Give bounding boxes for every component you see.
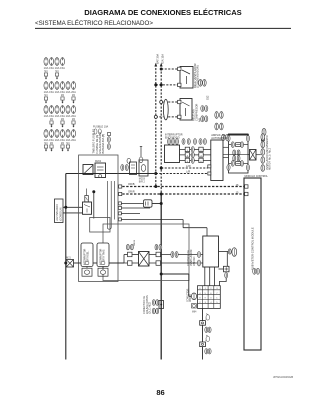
GS1 hook connector [206, 314, 207, 320]
junction box J1 [65, 262, 67, 264]
relay box K2 [180, 99, 192, 121]
chain sq1 [128, 252, 133, 257]
svg-text:86: 86 [156, 388, 164, 397]
svg-text:SUB METER CONTROL MODULE: SUB METER CONTROL MODULE [250, 227, 254, 270]
svg-text:UNION: UNION [190, 294, 192, 302]
fuse row2 F6 [71, 82, 75, 90]
svg-text:L/W: L/W [186, 164, 191, 168]
svg-text:MODULO CONTROL: MODULO CONTROL [245, 175, 269, 178]
connector column E41 [261, 134, 265, 141]
chain pills above sq1 [127, 245, 130, 250]
svg-text:10A: 10A [55, 66, 60, 70]
pin A1-2 [208, 172, 211, 175]
svg-text:15A: 15A [49, 114, 54, 118]
wire lb1-k3 b [63, 212, 83, 214]
loop connector b [246, 135, 249, 141]
cluster ovals [152, 300, 155, 306]
svg-text:GR/R: GR/R [128, 190, 135, 194]
connector M30 [262, 128, 266, 135]
svg-text:16: 16 [236, 183, 239, 187]
wire p2 [118, 207, 150, 209]
T1 pill below [225, 273, 228, 279]
svg-text:15A: 15A [60, 138, 65, 142]
svg-text:B/R 2: B/R 2 [139, 180, 146, 183]
loop connector c [227, 165, 230, 171]
fuse row3 F6 [71, 106, 75, 114]
svg-text:15A: 15A [49, 66, 54, 70]
inline component CA [130, 162, 137, 175]
svg-text:UNIDAD: UNIDAD [193, 256, 196, 266]
wire ign-2 [180, 154, 211, 156]
wire w6 (dashed) [156, 173, 208, 175]
table connector below-left [192, 304, 197, 308]
connector pair mid [121, 165, 124, 171]
connector E62 [215, 123, 219, 130]
chain row2 wire [109, 262, 139, 264]
svg-text:10A: 10A [44, 66, 49, 70]
connector E60 [215, 112, 219, 119]
connector E54 [201, 116, 204, 122]
svg-text:M4: M4 [72, 119, 76, 121]
wire bus-b branch [161, 273, 189, 275]
pin K2-1 [178, 100, 181, 103]
wire w5 (dashed) [161, 167, 208, 169]
svg-text:M4: M4 [44, 95, 48, 97]
svg-text:M4: M4 [72, 95, 76, 97]
fuse row2 F1 [44, 82, 48, 90]
plug connector P1 [144, 200, 153, 207]
svg-text:L/R: L/R [186, 169, 190, 173]
svg-text:10A: 10A [44, 138, 49, 142]
svg-text:M4: M4 [50, 119, 54, 121]
connector E53 [205, 106, 208, 112]
svg-text:MOTOR No.1 / No.2: MOTOR No.1 / No.2 [268, 147, 271, 170]
wire w4 [156, 116, 164, 118]
connector row above [168, 139, 171, 145]
bus B top arrow [160, 63, 163, 67]
control unit CR [203, 236, 219, 267]
CR box down wires [204, 267, 206, 286]
wire y172 horizontal [66, 173, 156, 175]
cluster connectors [107, 137, 110, 143]
GS2 hook connector [206, 335, 207, 341]
chain pills above sq2 [155, 245, 158, 250]
bottom vertical wire [202, 308, 204, 359]
lamp L1 [86, 189, 88, 196]
ground splice GS1 [200, 321, 206, 326]
svg-text:10A: 10A [44, 90, 49, 94]
svg-text:15A: 15A [49, 90, 54, 94]
wire down right [226, 252, 228, 267]
fuse row1 F2 [49, 58, 53, 66]
svg-text:10A: 10A [44, 114, 49, 118]
svg-text:M4: M4 [61, 119, 65, 121]
T1 left stub [219, 268, 224, 270]
T1 bend wire [219, 278, 226, 286]
svg-text:RELE: RELE [134, 239, 136, 246]
chain sq2 [156, 252, 161, 257]
diode D1 row [231, 142, 234, 148]
svg-text:M4: M4 [66, 143, 70, 145]
bus B (dashed) [160, 65, 162, 195]
svg-text:M4: M4 [55, 71, 59, 73]
fusible link above [140, 147, 142, 158]
relay box K3 [83, 202, 92, 214]
ignition switch box [165, 145, 180, 163]
fuse row3 F3 [55, 106, 59, 114]
ground splice GS2 [200, 342, 206, 347]
GS1 connector pair [205, 327, 208, 332]
loop connector a [227, 135, 230, 141]
wire v114 [114, 181, 116, 220]
wire lb1-k3 a [63, 206, 83, 208]
loop bold top edge [228, 134, 248, 136]
CR connectors left [197, 252, 200, 258]
svg-text:AUTOMATICO: AUTOMATICO [211, 136, 228, 140]
module pin 15 [245, 192, 248, 195]
narrow loop wire [107, 181, 111, 229]
svg-text:BAT 30A: BAT 30A [156, 54, 160, 64]
wire p4 [118, 219, 183, 221]
fuse row4 F6 [71, 130, 75, 138]
fuse row4 F3 [55, 130, 59, 138]
svg-text:DIAGRAMA DE CONEXIONES ELÉCTRI: DIAGRAMA DE CONEXIONES ELÉCTRICAS [84, 8, 242, 17]
wire w7 (dashed) [118, 186, 243, 188]
svg-text:10A: 10A [66, 90, 71, 94]
enclosure E2 [90, 218, 110, 233]
wire p1 [118, 203, 144, 205]
header rule [35, 27, 291, 29]
connector pair below bar [222, 134, 225, 140]
fuse row3 F5 [66, 106, 70, 114]
svg-text:M64: M64 [192, 312, 197, 314]
svg-text:BATERIA 30A [B]: BATERIA 30A [B] [101, 134, 105, 154]
wire ign-1 [180, 148, 211, 150]
coil box X2 [139, 252, 150, 267]
connector oval M40 [191, 293, 196, 300]
inline connector on bus [159, 301, 164, 309]
module box (control module) [244, 178, 261, 350]
network loop wire [229, 134, 249, 173]
connector E24 [199, 79, 203, 86]
door switch SW1 [81, 243, 93, 267]
svg-text:15A: 15A [60, 114, 65, 118]
wire to CR box [182, 220, 184, 228]
svg-text:M4: M4 [44, 71, 48, 73]
resistor R1 [95, 163, 106, 178]
svg-text:20A: 20A [71, 114, 76, 118]
svg-text:10A: 10A [66, 114, 71, 118]
junction table [198, 286, 221, 309]
fuse row4 F5 [66, 130, 70, 138]
relay box K1 [180, 67, 193, 89]
CR right wire [219, 251, 229, 253]
pin K2-2 [178, 115, 181, 118]
small oval left [127, 158, 131, 163]
connector E25 [203, 79, 207, 86]
connector E63 [220, 123, 224, 130]
wire ign-3 [180, 159, 211, 161]
svg-text:10A: 10A [55, 138, 60, 142]
svg-text:<SISTEMA ELÉCTRICO RELACIONADO: <SISTEMA ELÉCTRICO RELACIONADO> [35, 20, 153, 27]
svg-text:(DLC) M22: (DLC) M22 [148, 301, 151, 314]
svg-text:E52: E52 [207, 95, 210, 100]
svg-text:M4: M4 [61, 143, 65, 145]
pin K1-2 [178, 83, 181, 86]
amplifier box A1 [211, 140, 223, 181]
chain row1 wire b [149, 254, 171, 256]
coil box X1 [250, 150, 257, 161]
svg-text:FUSIBLE 10A: FUSIBLE 10A [93, 126, 109, 129]
switch S1 [83, 165, 93, 175]
fuse row2 F5 [66, 82, 70, 90]
fuse row4 F4 [60, 130, 64, 138]
svg-text:M4: M4 [44, 143, 48, 145]
svg-text:20A: 20A [71, 90, 76, 94]
fuse row1 F3 [55, 58, 59, 66]
svg-text:15A: 15A [60, 66, 65, 70]
fuse row2 F4 [60, 82, 64, 90]
label box LB1 [55, 199, 64, 223]
enclosure E3 [103, 224, 189, 281]
module pin 16 [245, 185, 248, 188]
feed wire with junction [92, 190, 95, 193]
bus A (dashed) [155, 65, 157, 187]
fuse row4 F1 [44, 130, 48, 138]
connector E55 [205, 116, 208, 122]
fuse row3 F1 [44, 106, 48, 114]
chain sq4 [156, 261, 161, 266]
fuse row2 F2 [49, 82, 53, 90]
loop connector d [246, 165, 249, 171]
fuse row4 F2 [49, 130, 53, 138]
svg-text:20A: 20A [71, 138, 76, 142]
diode D2 row [231, 161, 234, 167]
fuse row2 F3 [55, 82, 59, 90]
fusible link FL1 [160, 101, 163, 104]
module connectors [253, 268, 256, 274]
bus B lower (solid) [160, 194, 162, 360]
wire w8 (dashed) [118, 193, 243, 195]
svg-text:10A: 10A [55, 114, 60, 118]
wire sw1-sw2 [93, 262, 97, 264]
svg-text:10A: 10A [66, 138, 71, 142]
svg-text:15A: 15A [49, 138, 54, 142]
bus A top arrow [154, 63, 157, 67]
SW1 sub connector [82, 268, 92, 276]
junction square T1 [224, 266, 230, 272]
inline component CB [139, 160, 148, 176]
svg-text:M202: M202 [95, 160, 102, 163]
enclosure E1 [79, 155, 118, 282]
chain row1 wire [124, 254, 139, 256]
fuse row1 F4 [60, 58, 64, 66]
SW2 sub connector [98, 268, 108, 276]
wire w2 [156, 84, 178, 86]
fuse row3 F2 [49, 106, 53, 114]
svg-text:IGN 15A: IGN 15A [161, 54, 165, 64]
svg-text:15: 15 [236, 191, 239, 195]
fuse row3 F4 [60, 106, 64, 114]
chain sq3 [128, 261, 133, 266]
wire p3 [118, 213, 140, 215]
chain wire mid [109, 262, 124, 264]
mid connectors [233, 150, 236, 155]
GS2 connector pair [205, 349, 208, 354]
chain connector pills right [171, 252, 174, 258]
door switch SW2 [97, 243, 109, 267]
wire w1 [161, 68, 178, 70]
svg-text:10A: 10A [55, 90, 60, 94]
svg-text:JPWIA0049GB: JPWIA0049GB [273, 375, 293, 379]
svg-text:15A: 15A [60, 90, 65, 94]
M30 pin square [261, 137, 264, 141]
svg-text:M4: M4 [50, 143, 54, 145]
svg-text:M4: M4 [61, 95, 65, 97]
pin K1-1 [178, 67, 181, 70]
fuse row1 F1 [44, 58, 48, 66]
left vertical wire [65, 174, 67, 360]
connector E61 [220, 112, 224, 119]
wire j1-sw1 [74, 262, 82, 264]
pin A1-1 [208, 165, 211, 168]
svg-text:OR/B: OR/B [128, 182, 135, 186]
connector E52 [201, 106, 204, 112]
wire to CR [178, 254, 203, 256]
svg-text:(CONSOLA): (CONSOLA) [59, 207, 62, 221]
